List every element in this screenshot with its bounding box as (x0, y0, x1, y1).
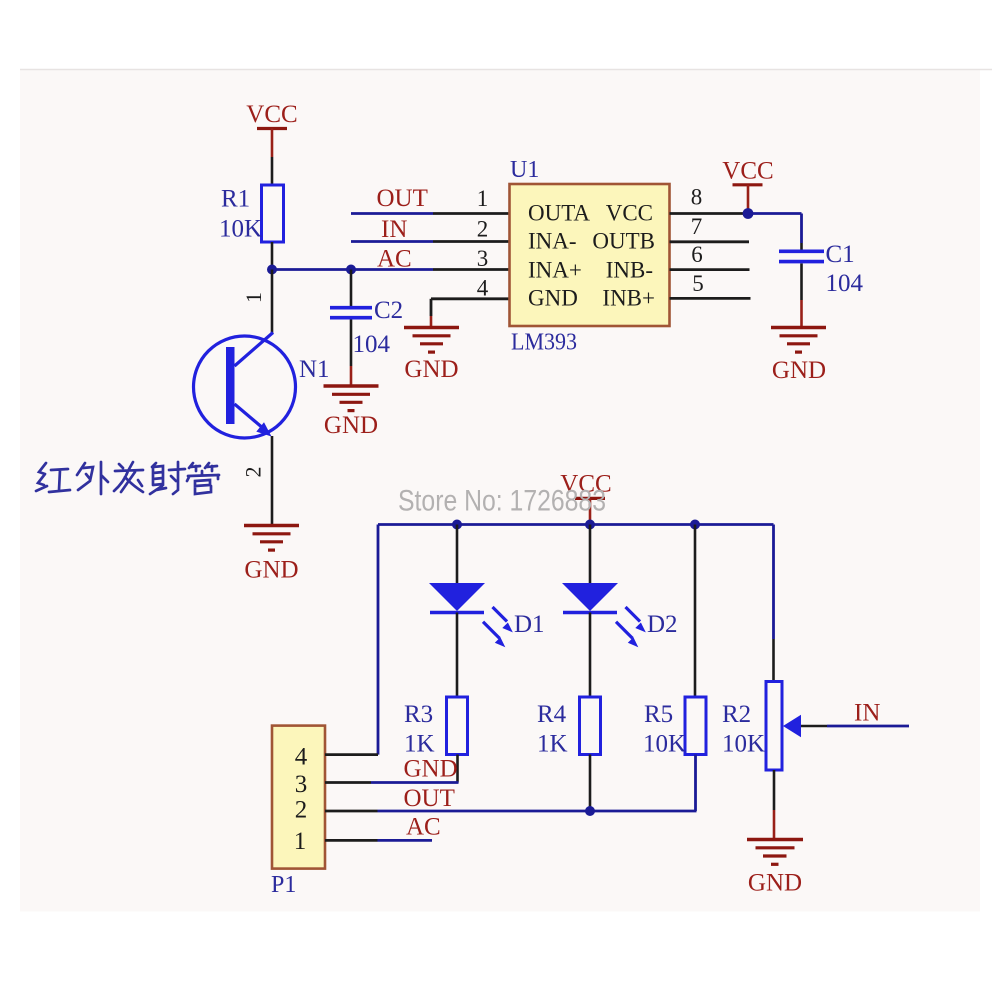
svg-text:10K: 10K (219, 216, 262, 243)
wire R5 to OUT line (694, 755, 697, 812)
resistor R5 (643, 697, 706, 758)
svg-text:D2: D2 (647, 611, 678, 638)
svg-text:C2: C2 (374, 297, 403, 324)
svg-text:LM393: LM393 (511, 330, 577, 356)
svg-text:INA-: INA- (528, 229, 577, 254)
capacitor C1 (779, 241, 864, 297)
svg-text:1K: 1K (404, 731, 435, 758)
svg-text:N1: N1 (299, 356, 330, 383)
svg-text:VCC: VCC (246, 101, 297, 128)
svg-text:P1: P1 (271, 872, 296, 898)
wire pin 7 (670, 240, 750, 243)
svg-text:1: 1 (294, 828, 307, 855)
svg-text:GND: GND (528, 286, 578, 311)
wire AC net to pin 3 (351, 268, 510, 271)
wire rail to P1 pin 4 (377, 525, 380, 755)
op-amp U1 LM393 body (510, 157, 670, 356)
wire R1 to node A (271, 242, 274, 270)
node B junction (346, 265, 356, 275)
resistor R3 (404, 697, 468, 758)
svg-text:U1: U1 (510, 157, 539, 183)
node OUT-R4 junction (585, 806, 595, 816)
transistor N1 (194, 333, 330, 439)
svg-text:2: 2 (241, 467, 266, 478)
svg-text:OUTB: OUTB (592, 229, 655, 254)
svg-text:GND: GND (404, 756, 458, 783)
power VCC (bottom rail) (560, 471, 611, 525)
ground (C1) (771, 328, 826, 385)
svg-text:VCC: VCC (606, 201, 653, 226)
svg-text:AC: AC (406, 814, 441, 841)
svg-text:AC: AC (377, 246, 412, 273)
svg-text:4: 4 (477, 276, 489, 301)
svg-text:GND: GND (324, 412, 378, 439)
wire IN to pin 2 (351, 240, 510, 243)
svg-text:4: 4 (295, 744, 308, 771)
wire emitter to ground (271, 436, 274, 526)
svg-text:GND: GND (748, 870, 802, 897)
LED D2 (562, 583, 678, 647)
power VCC (right) (722, 158, 773, 214)
svg-text:R2: R2 (722, 701, 751, 728)
svg-text:7: 7 (691, 214, 703, 239)
svg-text:R1: R1 (221, 186, 250, 213)
wire VCC node to C1 (748, 214, 802, 251)
svg-text:OUTA: OUTA (528, 201, 590, 226)
wire rail corner to R2 (772, 525, 775, 682)
svg-text:1: 1 (241, 292, 266, 303)
wire C2 to ground (350, 320, 353, 387)
wire pin 8 to VCC node (670, 212, 749, 215)
svg-text:IN: IN (854, 700, 880, 727)
svg-text:1: 1 (477, 186, 489, 211)
svg-text:INB+: INB+ (602, 286, 655, 311)
wire P1 pin 2 (OUT net) (325, 810, 697, 813)
ground (R2) (747, 840, 803, 897)
svg-text:R5: R5 (644, 701, 673, 728)
svg-text:GND: GND (772, 357, 826, 384)
svg-text:VCC: VCC (722, 158, 773, 185)
wire P1 pin 1 (AC net) (325, 839, 432, 842)
resistor R1 (219, 185, 284, 243)
resistor R4 (537, 697, 601, 758)
connector P1 (271, 726, 325, 898)
ground (C2) (324, 386, 379, 439)
node rail-R5 junction (690, 520, 700, 530)
wire pin 5 (670, 297, 751, 300)
svg-text:2: 2 (477, 217, 489, 242)
svg-text:Store No: 1726883: Store No: 1726883 (398, 485, 606, 518)
wire OUT to pin 1 (351, 212, 510, 215)
wire R4 to OUT node (589, 755, 592, 812)
svg-text:R3: R3 (404, 701, 433, 728)
LED D1 (429, 583, 545, 647)
svg-text:INA+: INA+ (528, 258, 582, 283)
wire P1 pin 4 (325, 753, 378, 756)
wire rail to R5 (694, 525, 697, 698)
node rail-D2 junction (585, 520, 595, 530)
svg-text:2: 2 (295, 797, 308, 824)
svg-text:10K: 10K (722, 731, 765, 758)
svg-text:GND: GND (404, 356, 458, 383)
wire rail to D1 (456, 525, 459, 584)
svg-text:OUT: OUT (377, 185, 428, 212)
wire node A to node B (AC net) (272, 268, 351, 271)
power VCC (top left) (246, 101, 297, 157)
potentiometer R2 (722, 682, 801, 771)
node A junction (267, 265, 277, 275)
wire VCC to R1 (271, 157, 274, 185)
wire pin 6 (670, 268, 750, 271)
node VCC junction (743, 208, 754, 219)
svg-text:INB-: INB- (606, 258, 653, 283)
wire node B to C2 (350, 270, 353, 307)
wire R2 wiper to IN (801, 725, 909, 728)
node rail-D1 junction (452, 520, 462, 530)
wire P1 pin 3 (GND net) (325, 781, 459, 784)
svg-text:R4: R4 (537, 701, 567, 728)
svg-text:3: 3 (477, 246, 489, 271)
wire D2 to R4 (589, 613, 592, 698)
svg-text:6: 6 (691, 242, 703, 267)
wire node A to transistor collector (271, 270, 274, 335)
wire D1 to R3 (456, 613, 459, 698)
wire C1 to ground (800, 264, 803, 328)
svg-text:8: 8 (691, 185, 703, 210)
wire pin 4 to ground (431, 299, 510, 328)
svg-text:104: 104 (353, 331, 391, 358)
svg-text:OUT: OUT (404, 785, 455, 812)
wire R2 to ground (773, 770, 776, 839)
svg-text:3: 3 (295, 771, 308, 798)
svg-text:104: 104 (826, 270, 864, 297)
capacitor C2 (330, 297, 403, 358)
svg-text:IN: IN (381, 216, 407, 243)
ground (N1 emitter) (244, 526, 299, 584)
svg-text:1K: 1K (537, 731, 568, 758)
svg-text:10K: 10K (643, 731, 686, 758)
svg-text:GND: GND (244, 557, 298, 584)
wire rail to D2 (589, 525, 592, 584)
svg-text:D1: D1 (514, 611, 545, 638)
ground (pin 4) (404, 328, 459, 384)
label 红外发射管 (infrared emitter) (36, 462, 219, 494)
svg-text:5: 5 (692, 271, 704, 296)
wire VCC rail (378, 523, 774, 526)
svg-text:C1: C1 (826, 241, 855, 268)
wire R3 to P1 pin 3 (456, 755, 459, 783)
